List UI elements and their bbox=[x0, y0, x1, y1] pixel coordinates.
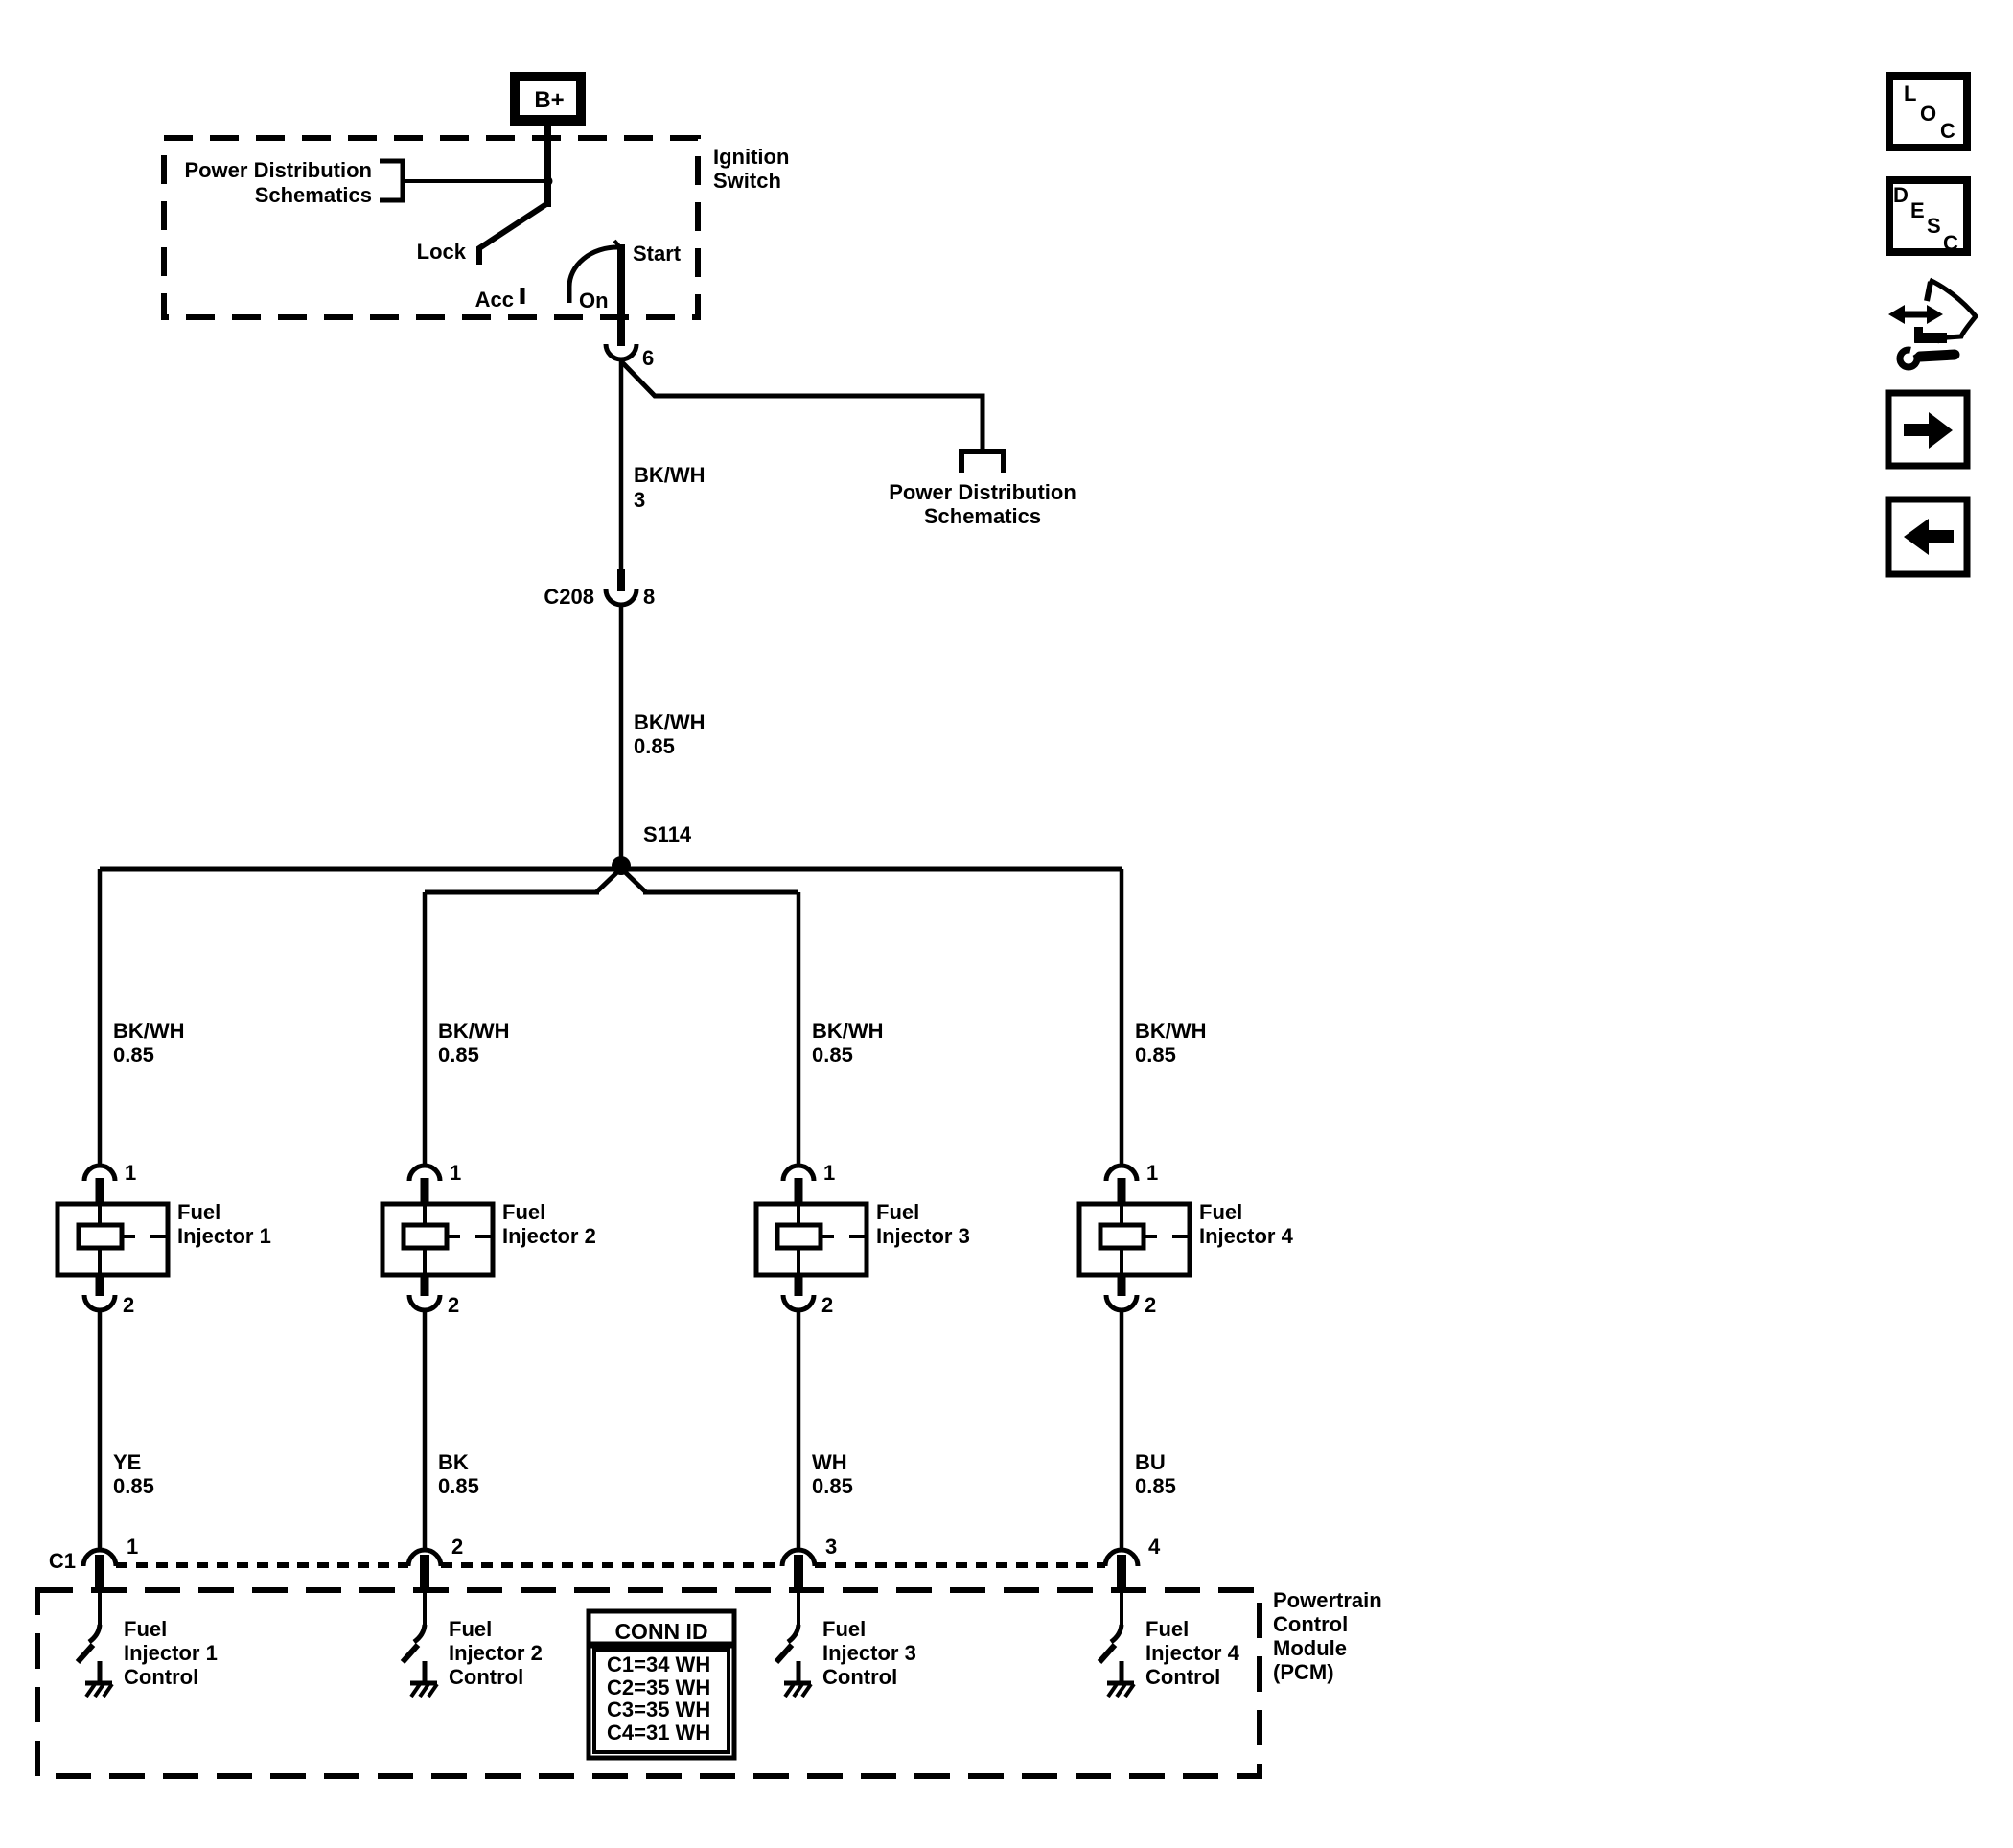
icon next page (right arrow) bbox=[1888, 393, 1967, 466]
svg-text:Fuel: Fuel bbox=[822, 1617, 866, 1641]
wire splice diagonal left bbox=[596, 870, 619, 892]
power distribution schematics label (right) bbox=[889, 480, 1076, 528]
svg-text:2: 2 bbox=[448, 1293, 459, 1317]
svg-text:Powertrain: Powertrain bbox=[1273, 1588, 1382, 1612]
svg-text:Switch: Switch bbox=[713, 169, 781, 193]
wire label BK/WH 0.85 (injector 1 feed) bbox=[113, 1019, 185, 1067]
svg-text:Fuel: Fuel bbox=[502, 1200, 545, 1224]
wire feed to injector 2 bbox=[423, 892, 428, 1166]
svg-text:Fuel: Fuel bbox=[1145, 1617, 1189, 1641]
svg-text:BU: BU bbox=[1135, 1450, 1166, 1474]
icon previous page (left arrow) bbox=[1888, 499, 1967, 574]
fuel injector 2 control label bbox=[449, 1617, 543, 1689]
svg-text:0.85: 0.85 bbox=[812, 1474, 853, 1498]
svg-text:0.85: 0.85 bbox=[812, 1043, 853, 1067]
splice bus wire (outer) bbox=[100, 867, 1122, 872]
svg-text:CONN ID: CONN ID bbox=[614, 1619, 707, 1644]
fuel injector 3 terminal 2 bbox=[783, 1275, 833, 1317]
svg-text:Injector 4: Injector 4 bbox=[1199, 1224, 1294, 1248]
svg-text:C1=34 WH: C1=34 WH bbox=[607, 1652, 710, 1676]
svg-text:1: 1 bbox=[1146, 1161, 1158, 1185]
ground (injector 4 driver) bbox=[1107, 1661, 1134, 1697]
svg-text:C1: C1 bbox=[49, 1549, 76, 1573]
ignition switch wiper wire to Lock bbox=[479, 203, 548, 265]
wire feed to injector 1 bbox=[98, 869, 103, 1166]
svg-text:Fuel: Fuel bbox=[124, 1617, 167, 1641]
On position tick bbox=[567, 286, 572, 303]
wire label BK 0.85 bbox=[438, 1450, 479, 1498]
switch lever (Start) bbox=[614, 241, 621, 346]
svg-text:BK/WH: BK/WH bbox=[1135, 1019, 1207, 1043]
svg-text:Injector 2: Injector 2 bbox=[449, 1641, 543, 1665]
svg-text:Control: Control bbox=[1273, 1612, 1348, 1636]
svg-text:Schematics: Schematics bbox=[255, 183, 372, 207]
wire injector 3 to PCM bbox=[797, 1310, 801, 1549]
wire label WH 0.85 bbox=[812, 1450, 853, 1498]
fuel injector 4 (solenoid) bbox=[1079, 1204, 1190, 1275]
fuel injector 2 terminal 1 bbox=[409, 1161, 461, 1206]
svg-text:0.85: 0.85 bbox=[1135, 1474, 1176, 1498]
svg-text:0.85: 0.85 bbox=[438, 1043, 479, 1067]
wire injector 1 to PCM bbox=[98, 1310, 103, 1549]
fuel injector 1 control label bbox=[124, 1617, 218, 1689]
wire injector 2 to PCM bbox=[423, 1310, 428, 1549]
svg-text:Injector 4: Injector 4 bbox=[1145, 1641, 1240, 1665]
fuel injector 3 control label bbox=[822, 1617, 916, 1689]
svg-text:B+: B+ bbox=[534, 87, 564, 113]
svg-text:Power Distribution: Power Distribution bbox=[184, 158, 372, 182]
PCM connector dotted line bbox=[116, 1562, 1105, 1568]
ignition switch dashed box bbox=[164, 138, 698, 317]
wire feed to injector 3 bbox=[797, 892, 801, 1166]
fuel injector 4 control label bbox=[1145, 1617, 1240, 1689]
svg-text:C: C bbox=[1940, 119, 1955, 143]
svg-text:Injector 1: Injector 1 bbox=[177, 1224, 271, 1248]
svg-text:1: 1 bbox=[127, 1535, 138, 1559]
svg-text:S114: S114 bbox=[643, 822, 692, 846]
switch sweep arc bbox=[569, 247, 617, 287]
svg-text:Start: Start bbox=[633, 242, 682, 266]
svg-text:C2=35 WH: C2=35 WH bbox=[607, 1675, 710, 1699]
wire C208 to S114 bbox=[619, 605, 624, 861]
svg-text:BK/WH: BK/WH bbox=[812, 1019, 884, 1043]
svg-text:Acc: Acc bbox=[475, 288, 514, 312]
fuel injector 4 terminal 2 bbox=[1106, 1275, 1156, 1317]
svg-text:1: 1 bbox=[125, 1161, 136, 1185]
ground (injector 2 driver) bbox=[410, 1661, 437, 1697]
svg-text:On: On bbox=[579, 289, 609, 312]
node junction in ignition switch bbox=[544, 176, 553, 186]
injector 2 driver switch bbox=[403, 1593, 425, 1662]
svg-text:2: 2 bbox=[1145, 1293, 1156, 1317]
svg-text:BK/WH: BK/WH bbox=[634, 463, 706, 487]
fuel injector 2 terminal 2 bbox=[409, 1275, 459, 1317]
connector C208 stub bbox=[617, 569, 625, 591]
svg-text:(PCM): (PCM) bbox=[1273, 1660, 1334, 1684]
svg-text:1: 1 bbox=[823, 1161, 835, 1185]
svg-text:Fuel: Fuel bbox=[449, 1617, 492, 1641]
wire label BU 0.85 bbox=[1135, 1450, 1176, 1498]
ground (injector 3 driver) bbox=[784, 1661, 811, 1697]
icon service/replace (double arrow, outline arrow, wrench) bbox=[1888, 280, 1976, 367]
wire label BK/WH 0.85 bbox=[634, 710, 706, 758]
svg-text:0.85: 0.85 bbox=[438, 1474, 479, 1498]
svg-text:Control: Control bbox=[1145, 1665, 1220, 1689]
PCM connector terminal pin 1 bbox=[83, 1535, 138, 1593]
wire label BK/WH 3 bbox=[634, 463, 706, 512]
fuel injector 1 label bbox=[177, 1200, 271, 1248]
PCM dashed box bbox=[37, 1590, 1260, 1776]
wire feed to injector 4 bbox=[1120, 869, 1124, 1166]
svg-text:Ignition: Ignition bbox=[713, 145, 789, 169]
ground (injector 1 driver) bbox=[85, 1661, 112, 1697]
battery feed B+ bbox=[510, 72, 586, 126]
svg-text:Lock: Lock bbox=[417, 240, 467, 264]
power distribution schematics bracket bbox=[380, 161, 403, 200]
wire injector 4 to PCM bbox=[1120, 1310, 1124, 1549]
ignition switch label bbox=[713, 145, 789, 193]
fuel injector 3 terminal 1 bbox=[783, 1161, 835, 1206]
svg-text:BK/WH: BK/WH bbox=[113, 1019, 185, 1043]
wire label BK/WH 0.85 (injector 3 feed) bbox=[812, 1019, 884, 1067]
svg-text:0.85: 0.85 bbox=[634, 734, 675, 758]
PCM connector terminal pin 2 bbox=[408, 1535, 463, 1593]
svg-text:D: D bbox=[1893, 183, 1909, 207]
fuel injector 1 terminal 1 bbox=[84, 1161, 136, 1206]
connector terminal C208 pin 8 bbox=[606, 589, 636, 605]
svg-text:Control: Control bbox=[124, 1665, 198, 1689]
svg-text:0.85: 0.85 bbox=[113, 1474, 154, 1498]
svg-text:WH: WH bbox=[812, 1450, 847, 1474]
svg-text:0.85: 0.85 bbox=[1135, 1043, 1176, 1067]
svg-text:2: 2 bbox=[821, 1293, 833, 1317]
svg-text:Fuel: Fuel bbox=[1199, 1200, 1242, 1224]
fuel injector 2 (solenoid) bbox=[382, 1204, 493, 1275]
svg-text:C: C bbox=[1943, 231, 1958, 255]
svg-text:BK/WH: BK/WH bbox=[634, 710, 706, 734]
injector 3 driver switch bbox=[776, 1593, 798, 1662]
svg-text:BK: BK bbox=[438, 1450, 469, 1474]
fuel injector 4 label bbox=[1199, 1200, 1294, 1248]
splice bus wire inner right bbox=[643, 890, 798, 895]
connector terminal 6 bbox=[606, 344, 636, 359]
fuel injector 3 (solenoid) bbox=[756, 1204, 867, 1275]
fuel injector 1 terminal 2 bbox=[84, 1275, 134, 1317]
injector 4 driver switch bbox=[1099, 1593, 1122, 1662]
PCM connector terminal pin 3 bbox=[782, 1535, 837, 1593]
icon LOC box bbox=[1889, 76, 1967, 148]
wire label BK/WH 0.85 (injector 2 feed) bbox=[438, 1019, 510, 1067]
svg-text:Power Distribution: Power Distribution bbox=[889, 480, 1076, 504]
svg-text:Injector 3: Injector 3 bbox=[876, 1224, 970, 1248]
svg-text:4: 4 bbox=[1148, 1535, 1161, 1559]
fuel injector 3 label bbox=[876, 1200, 970, 1248]
splice bus wire inner left bbox=[425, 890, 599, 895]
PCM connector terminal pin 4 bbox=[1105, 1535, 1161, 1593]
fuel injector 1 (solenoid) bbox=[58, 1204, 168, 1275]
svg-text:S: S bbox=[1927, 214, 1941, 238]
fuel injector 4 terminal 1 bbox=[1106, 1161, 1158, 1206]
CONN ID table bbox=[589, 1611, 734, 1758]
svg-text:C3=35 WH: C3=35 WH bbox=[607, 1698, 710, 1721]
svg-text:Control: Control bbox=[822, 1665, 897, 1689]
svg-text:0.85: 0.85 bbox=[113, 1043, 154, 1067]
svg-text:2: 2 bbox=[451, 1535, 463, 1559]
wire to power distribution bracket bbox=[404, 179, 547, 183]
wire splice diagonal right bbox=[623, 870, 646, 892]
wire label BK/WH 0.85 (injector 4 feed) bbox=[1135, 1019, 1207, 1067]
svg-text:3: 3 bbox=[825, 1535, 837, 1559]
fuel injector 2 label bbox=[502, 1200, 596, 1248]
wire ignition to C208 bbox=[619, 359, 624, 569]
svg-text:E: E bbox=[1910, 198, 1925, 222]
svg-text:1: 1 bbox=[450, 1161, 461, 1185]
svg-text:3: 3 bbox=[634, 488, 645, 512]
svg-text:C4=31 WH: C4=31 WH bbox=[607, 1721, 710, 1744]
wire branch to power distribution bbox=[622, 362, 983, 450]
svg-text:Control: Control bbox=[449, 1665, 523, 1689]
svg-text:Injector 1: Injector 1 bbox=[124, 1641, 218, 1665]
svg-text:YE: YE bbox=[113, 1450, 141, 1474]
wire label YE 0.85 bbox=[113, 1450, 154, 1498]
injector 1 driver switch bbox=[78, 1593, 100, 1662]
powertrain control module label bbox=[1273, 1588, 1382, 1684]
svg-text:L: L bbox=[1904, 81, 1916, 105]
splice S114 junction dot bbox=[612, 856, 631, 875]
svg-text:O: O bbox=[1920, 102, 1936, 126]
svg-text:Injector 3: Injector 3 bbox=[822, 1641, 916, 1665]
svg-text:Fuel: Fuel bbox=[177, 1200, 220, 1224]
svg-text:Schematics: Schematics bbox=[924, 504, 1041, 528]
svg-text:C208: C208 bbox=[544, 585, 594, 609]
svg-text:8: 8 bbox=[643, 585, 655, 609]
Acc position tick bbox=[521, 288, 525, 304]
off-page bracket to power distribution bbox=[961, 451, 1004, 473]
svg-text:BK/WH: BK/WH bbox=[438, 1019, 510, 1043]
svg-text:Fuel: Fuel bbox=[876, 1200, 919, 1224]
svg-text:2: 2 bbox=[123, 1293, 134, 1317]
wire B+ to ignition switch bbox=[544, 126, 551, 207]
power distribution schematics label (left) bbox=[184, 158, 372, 207]
icon DESC box bbox=[1889, 180, 1967, 255]
svg-text:Injector 2: Injector 2 bbox=[502, 1224, 596, 1248]
svg-text:Module: Module bbox=[1273, 1636, 1347, 1660]
svg-text:6: 6 bbox=[642, 346, 654, 370]
